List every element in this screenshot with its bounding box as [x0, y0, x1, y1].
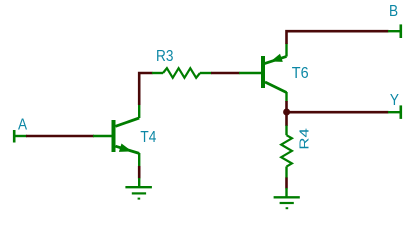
wire A to T4 base [26, 135, 94, 138]
svg-text:R3: R3 [156, 48, 173, 65]
wire T4 collector to R3 [139, 73, 152, 105]
svg-text:T6: T6 [292, 65, 309, 83]
svg-text:T4: T4 [140, 129, 156, 146]
wire node Y to R4 [285, 112, 288, 126]
wire R3 to T6 base [211, 72, 240, 75]
junction node Y [283, 109, 290, 116]
wire R4 to ground [285, 178, 288, 189]
wire T6 emitter to B [287, 31, 389, 44]
terminal B [388, 24, 401, 38]
wire node Y to terminal Y [287, 111, 389, 114]
ground GND1 (T4 emitter) [125, 178, 151, 199]
wire T6 collector to node Y [285, 101, 288, 112]
resistor R3 [152, 68, 212, 78]
terminal Y [388, 105, 401, 119]
transistor T6 [239, 44, 287, 102]
svg-text:Y: Y [390, 92, 399, 109]
resistor R4 [281, 126, 292, 179]
ground GND2 (below R4) [274, 188, 300, 208]
svg-text:B: B [389, 3, 398, 20]
wire T4 emitter to ground [138, 166, 141, 179]
svg-text:A: A [18, 117, 27, 134]
transistor T4 [93, 105, 139, 167]
terminal A [14, 130, 27, 143]
svg-text:R4: R4 [297, 128, 312, 149]
